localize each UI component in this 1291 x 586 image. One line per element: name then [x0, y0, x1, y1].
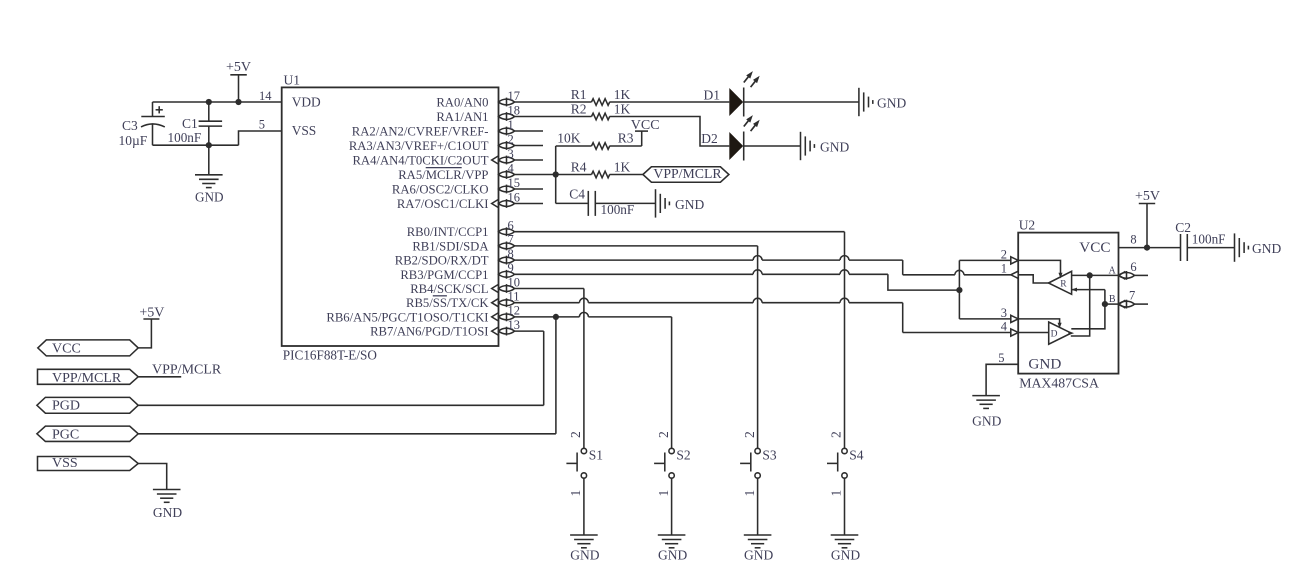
- svg-text:1K: 1K: [614, 159, 631, 174]
- svg-text:GND: GND: [744, 548, 773, 563]
- svg-text:RA1/AN1: RA1/AN1: [436, 110, 488, 124]
- svg-text:R3: R3: [618, 131, 634, 146]
- svg-text:100nF: 100nF: [168, 130, 202, 145]
- svg-text:GND: GND: [570, 548, 599, 563]
- svg-text:2: 2: [656, 431, 671, 438]
- svg-text:RA7/OSC1/CLKI: RA7/OSC1/CLKI: [397, 197, 489, 211]
- svg-text:9: 9: [508, 261, 514, 275]
- svg-text:U2: U2: [1019, 217, 1035, 232]
- svg-text:C3: C3: [122, 118, 138, 133]
- svg-text:C1: C1: [182, 116, 198, 131]
- svg-text:1: 1: [829, 490, 844, 497]
- svg-text:1: 1: [656, 490, 671, 497]
- svg-text:6: 6: [508, 219, 514, 233]
- svg-text:C2: C2: [1175, 220, 1191, 235]
- svg-text:2: 2: [742, 431, 757, 438]
- svg-text:VPP/MCLR: VPP/MCLR: [52, 371, 122, 386]
- svg-text:VCC: VCC: [1079, 239, 1110, 256]
- svg-text:7: 7: [508, 233, 514, 247]
- svg-text:S1: S1: [589, 447, 603, 462]
- svg-text:PGC: PGC: [52, 427, 79, 442]
- svg-text:18: 18: [508, 103, 521, 117]
- svg-text:D1: D1: [704, 87, 721, 102]
- svg-text:GND: GND: [153, 505, 182, 520]
- svg-text:RA6/OSC2/CLKO: RA6/OSC2/CLKO: [392, 183, 489, 197]
- svg-text:D2: D2: [701, 131, 718, 146]
- svg-text:GND: GND: [1252, 241, 1281, 256]
- svg-text:6: 6: [1130, 260, 1136, 274]
- svg-text:S2: S2: [676, 447, 690, 462]
- svg-text:3: 3: [1001, 306, 1007, 320]
- svg-text:8: 8: [508, 247, 514, 261]
- svg-text:D: D: [1051, 330, 1058, 340]
- svg-text:VDD: VDD: [292, 95, 321, 110]
- svg-text:GND: GND: [1028, 356, 1061, 373]
- svg-text:+5V: +5V: [226, 60, 251, 75]
- svg-text:2: 2: [568, 431, 583, 438]
- svg-text:10K: 10K: [557, 131, 581, 146]
- svg-text:1: 1: [742, 490, 757, 497]
- svg-text:10µF: 10µF: [119, 133, 148, 148]
- svg-text:RB3/PGM/CCP1: RB3/PGM/CCP1: [400, 268, 488, 282]
- svg-text:PGD: PGD: [52, 399, 80, 414]
- svg-text:RB7/AN6/PGD/T1OSI: RB7/AN6/PGD/T1OSI: [370, 325, 488, 339]
- svg-text:2: 2: [508, 132, 514, 146]
- svg-text:5: 5: [998, 351, 1004, 365]
- svg-text:RB5/SS/TX/CK: RB5/SS/TX/CK: [406, 296, 489, 310]
- svg-text:1K: 1K: [614, 87, 631, 102]
- svg-text:GND: GND: [877, 95, 906, 110]
- svg-text:VSS: VSS: [292, 123, 317, 138]
- svg-text:B: B: [1109, 294, 1116, 305]
- svg-text:A: A: [1108, 265, 1116, 276]
- svg-text:U1: U1: [284, 73, 301, 88]
- svg-text:VSS: VSS: [52, 456, 78, 471]
- svg-text:1: 1: [1001, 262, 1007, 276]
- svg-text:C4: C4: [569, 187, 585, 202]
- svg-text:RB1/SDI/SDA: RB1/SDI/SDA: [412, 239, 489, 253]
- svg-text:PIC16F88T-E/SO: PIC16F88T-E/SO: [283, 348, 377, 363]
- svg-text:17: 17: [508, 89, 521, 103]
- svg-text:VPP/MCLR: VPP/MCLR: [653, 166, 722, 181]
- svg-text:RA3/AN3/VREF+/C1OUT: RA3/AN3/VREF+/C1OUT: [349, 139, 489, 153]
- svg-text:R2: R2: [571, 101, 587, 116]
- svg-text:S4: S4: [849, 447, 864, 462]
- svg-text:RA5/MCLR/VPP: RA5/MCLR/VPP: [398, 168, 488, 182]
- svg-text:2: 2: [1001, 247, 1007, 261]
- svg-text:RB4/SCK/SCL: RB4/SCK/SCL: [410, 282, 488, 296]
- svg-text:5: 5: [259, 118, 265, 132]
- svg-text:GND: GND: [831, 548, 860, 563]
- svg-text:11: 11: [508, 290, 520, 304]
- svg-text:S3: S3: [762, 447, 777, 462]
- svg-text:15: 15: [508, 176, 521, 190]
- svg-text:GND: GND: [972, 414, 1001, 429]
- svg-text:RB6/AN5/PGC/T1OSO/T1CKI: RB6/AN5/PGC/T1OSO/T1CKI: [326, 310, 488, 324]
- svg-text:VCC: VCC: [52, 342, 81, 357]
- svg-text:R4: R4: [571, 159, 587, 174]
- svg-text:3: 3: [508, 147, 514, 161]
- svg-text:GND: GND: [195, 189, 224, 204]
- svg-text:7: 7: [1129, 288, 1135, 302]
- svg-text:100nF: 100nF: [1192, 232, 1226, 247]
- svg-text:16: 16: [508, 190, 521, 204]
- svg-text:4: 4: [1001, 319, 1008, 333]
- svg-text:GND: GND: [658, 548, 687, 563]
- svg-text:R1: R1: [571, 87, 587, 102]
- svg-text:1: 1: [508, 118, 514, 132]
- svg-text:RA0/AN0: RA0/AN0: [436, 96, 488, 110]
- svg-text:13: 13: [508, 318, 521, 332]
- svg-text:2: 2: [829, 431, 844, 438]
- svg-text:+5V: +5V: [1135, 189, 1160, 204]
- svg-text:RA2/AN2/CVREF/VREF-: RA2/AN2/CVREF/VREF-: [352, 125, 489, 139]
- svg-text:4: 4: [508, 161, 515, 175]
- svg-text:VCC: VCC: [631, 118, 660, 133]
- svg-text:RB2/SDO/RX/DT: RB2/SDO/RX/DT: [395, 254, 489, 268]
- svg-text:RA4/AN4/T0CKI/C2OUT: RA4/AN4/T0CKI/C2OUT: [352, 154, 488, 168]
- svg-text:100nF: 100nF: [601, 202, 635, 217]
- svg-text:14: 14: [259, 89, 272, 103]
- svg-text:GND: GND: [675, 197, 704, 212]
- svg-text:R: R: [1060, 279, 1067, 289]
- svg-text:MAX487CSA: MAX487CSA: [1019, 375, 1099, 390]
- svg-text:1: 1: [568, 490, 583, 497]
- svg-text:VPP/MCLR: VPP/MCLR: [152, 362, 222, 377]
- svg-text:GND: GND: [820, 140, 849, 155]
- svg-text:8: 8: [1130, 232, 1136, 246]
- svg-text:+5V: +5V: [139, 305, 164, 320]
- svg-text:12: 12: [508, 304, 521, 318]
- svg-text:10: 10: [508, 275, 521, 289]
- svg-text:1K: 1K: [614, 101, 631, 116]
- svg-text:RB0/INT/CCP1: RB0/INT/CCP1: [407, 225, 489, 239]
